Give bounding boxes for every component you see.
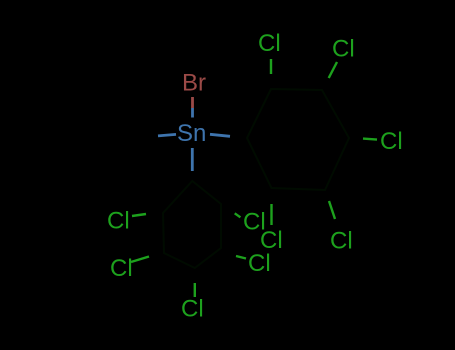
C-Cl tick ring A top-right	[329, 62, 337, 78]
C-Cl tick ring B right-bottom	[236, 256, 246, 259]
svg-text:Cl: Cl	[248, 250, 271, 277]
C-Cl tick ring A bottom-right	[329, 201, 335, 219]
C-Cl tick ring B left-bottom	[131, 257, 149, 263]
svg-text:Cl: Cl	[380, 128, 403, 155]
bond Sn-Br (red half)	[191, 97, 194, 108]
C-Cl tick ring A right	[363, 139, 377, 140]
bond Sn-ringA (blue half)	[210, 134, 230, 136]
benzene ring A (pentachlorophenyl, right)	[247, 89, 349, 190]
C-Cl tick ring A top-left	[270, 59, 272, 74]
svg-text:Br: Br	[182, 70, 206, 97]
bond Sn-CH3 (blue half)	[158, 134, 176, 136]
svg-text:Cl: Cl	[107, 208, 130, 235]
svg-text:Sn: Sn	[177, 120, 206, 147]
bond Sn-ringB (blue half)	[191, 148, 194, 171]
C-Cl tick ring A bottom-left	[270, 204, 272, 225]
benzene ring B (pentachlorophenyl, bottom)	[163, 181, 221, 268]
C-Cl tick ring B left-top	[132, 214, 146, 216]
bond Sn-Br (blue half)	[191, 108, 194, 118]
C-Cl tick ring B bottom	[194, 283, 196, 297]
svg-text:Cl: Cl	[181, 296, 204, 323]
svg-text:Cl: Cl	[110, 255, 133, 282]
svg-text:Cl: Cl	[332, 36, 355, 63]
svg-text:Cl: Cl	[243, 209, 266, 236]
C-Cl tick ring B right-top	[235, 213, 241, 217]
svg-text:Cl: Cl	[330, 228, 353, 255]
svg-text:Cl: Cl	[258, 30, 281, 57]
